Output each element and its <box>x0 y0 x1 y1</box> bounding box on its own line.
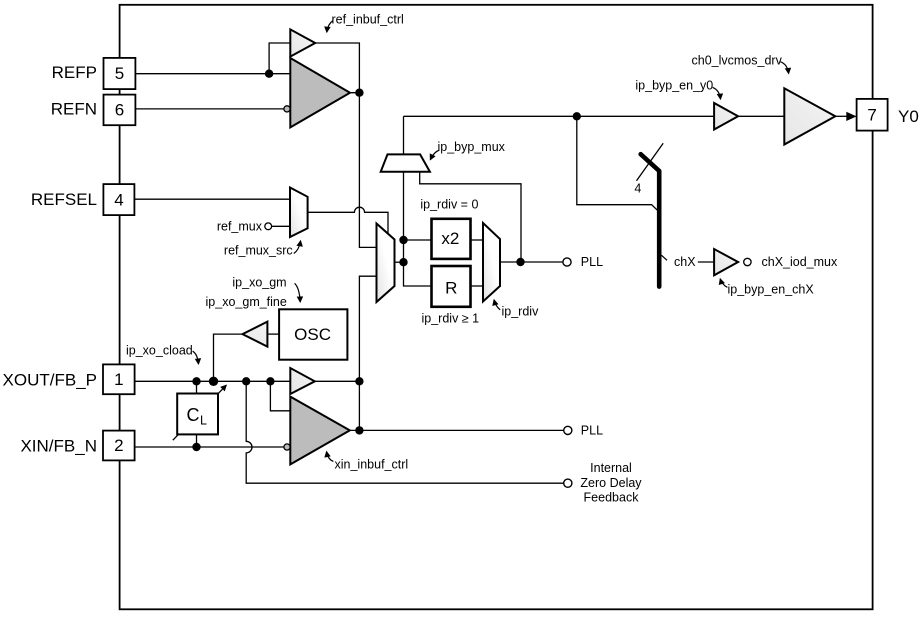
svg-text:x2: x2 <box>441 229 459 248</box>
terminal PLL upper <box>563 258 571 266</box>
wire XOUT pin1 to xin buffers <box>135 380 291 382</box>
buffer small ref_inbuf ctrl triangle <box>290 29 315 56</box>
svg-text:XIN/FB_N: XIN/FB_N <box>20 437 97 456</box>
buffer ip_byp_en_y0 <box>714 103 738 130</box>
wire chX to buffer <box>698 261 714 263</box>
svg-text:R: R <box>445 278 457 297</box>
wire ref buffer output down to input mux in1 <box>350 93 377 248</box>
wire chX tap from bus <box>661 255 667 260</box>
wire divider feed vertical <box>404 172 432 286</box>
wire REFP pin5 to ref buffer <box>135 73 290 75</box>
buffer chX iod <box>714 249 738 275</box>
svg-text:ip_xo_gm_fine: ip_xo_gm_fine <box>206 295 287 309</box>
block OSC <box>279 309 347 359</box>
wire zero delay feedback with hop <box>246 381 564 483</box>
svg-text:ref_mux: ref_mux <box>217 220 263 234</box>
bus thick output bus <box>641 154 660 286</box>
wire xin big buffer input elbow <box>270 381 290 411</box>
svg-text:6: 6 <box>115 101 124 120</box>
svg-text:ip_byp_en_y0: ip_byp_en_y0 <box>635 79 713 93</box>
wire CL top <box>196 381 198 393</box>
svg-text:7: 7 <box>867 106 876 125</box>
wire xin buffer output to PLL <box>350 429 564 431</box>
wire rdiv mux output to PLL <box>500 261 563 263</box>
svg-text:ip_xo_cload: ip_xo_cload <box>126 344 193 358</box>
mux ref_mux (REFSEL select) <box>290 188 308 238</box>
svg-text:ip_byp_mux: ip_byp_mux <box>438 140 506 154</box>
wire small ref buffer output over to ref output net <box>315 43 359 93</box>
wire OSC inverter output elbow <box>214 334 243 381</box>
svg-text:C: C <box>187 405 200 425</box>
svg-text:4: 4 <box>114 190 123 209</box>
wire x2 input <box>404 239 432 241</box>
adjust arrow through CL <box>173 385 227 440</box>
wire REFP tap up to noninverting ctrl buffer <box>269 43 290 74</box>
bubble XIN inverting input <box>284 444 290 450</box>
node junction dots <box>265 70 273 78</box>
buffer xin input big triangle <box>290 397 350 465</box>
svg-text:REFN: REFN <box>51 99 97 118</box>
svg-text:REFP: REFP <box>52 63 97 82</box>
wire y0 buffer to ch0 driver <box>738 115 784 117</box>
buffer ch0_lvcmos_drv <box>784 88 835 144</box>
svg-text:xin_inbuf_ctrl: xin_inbuf_ctrl <box>335 458 409 472</box>
wire OSC to inverter <box>267 333 279 335</box>
buffer OSC inverter (left pointing) <box>243 322 268 347</box>
wire bypass top rail to y0 buffer <box>404 115 715 117</box>
wire XIN pin2 to xin buffer inverting input <box>135 446 285 448</box>
terminal ref_mux control <box>265 223 272 230</box>
svg-text:ref_inbuf_ctrl: ref_inbuf_ctrl <box>332 12 404 26</box>
svg-text:ref_mux_src: ref_mux_src <box>224 243 293 257</box>
chip outline <box>120 5 873 610</box>
wire REFSEL pin4 to ref_mux <box>134 198 290 200</box>
terminal chX_iod_mux <box>744 258 751 265</box>
pin 7 Y0 <box>857 99 888 131</box>
svg-text:5: 5 <box>115 64 124 83</box>
svg-text:4: 4 <box>634 182 641 196</box>
mux ip_byp_mux trapezoid <box>381 154 430 171</box>
svg-text:ip_rdiv: ip_rdiv <box>502 305 540 319</box>
wire x2 to rdiv mux <box>471 239 484 241</box>
buffer ref input big triangle <box>290 58 350 127</box>
terminal PLL lower <box>564 426 572 434</box>
terminal internal zero delay feedback <box>564 479 572 487</box>
svg-text:Feedback: Feedback <box>584 490 640 504</box>
svg-text:PLL: PLL <box>581 255 603 269</box>
svg-text:REFSEL: REFSEL <box>31 190 97 209</box>
wire ref_mux control input <box>272 225 290 227</box>
svg-text:1: 1 <box>114 370 123 389</box>
svg-text:ip_rdiv = 0: ip_rdiv = 0 <box>420 198 478 212</box>
svg-text:ip_byp_en_chX: ip_byp_en_chX <box>728 283 815 297</box>
bubble REFN inverting input <box>284 106 290 112</box>
mux ip_rdiv <box>483 223 500 302</box>
wire ch0 driver to pin7 <box>835 115 849 117</box>
svg-text:chX_iod_mux: chX_iod_mux <box>762 255 838 269</box>
mux input select (xin vs ref) <box>377 224 395 303</box>
wire bypass mux top stem <box>403 116 405 154</box>
wire ref_mux output with hop to input mux select <box>308 207 388 233</box>
wire xin net to input mux in2 <box>359 276 376 430</box>
block CL load capacitor <box>177 394 218 435</box>
svg-text:2: 2 <box>114 436 123 455</box>
buffer small xin ctrl triangle <box>290 368 315 394</box>
wire REFN pin6 to ref buffer inverting input <box>135 108 284 110</box>
svg-text:Y0: Y0 <box>898 107 919 126</box>
bus width slash <box>637 143 664 181</box>
wire R to rdiv mux <box>471 285 484 287</box>
svg-text:Internal: Internal <box>590 461 632 475</box>
svg-text:OSC: OSC <box>294 325 331 344</box>
svg-text:ip_rdiv ≥ 1: ip_rdiv ≥ 1 <box>422 312 480 326</box>
block x2 multiplier <box>432 219 471 259</box>
wire y0 bypass branch down to output bus <box>577 116 659 211</box>
svg-text:L: L <box>200 413 207 427</box>
svg-text:ip_xo_gm: ip_xo_gm <box>232 276 286 290</box>
svg-text:ch0_lvcmos_drv: ch0_lvcmos_drv <box>692 54 783 68</box>
svg-text:chX: chX <box>674 255 696 269</box>
wire bypass mux second input from divider output <box>420 172 521 262</box>
svg-text:PLL: PLL <box>581 424 603 438</box>
arrowhead into pin7 <box>846 112 856 121</box>
wire input mux output <box>395 261 404 263</box>
block R divider <box>432 266 471 307</box>
wire xin small buffer output <box>315 380 360 382</box>
wire CL bottom <box>196 434 198 447</box>
svg-text:XOUT/FB_P: XOUT/FB_P <box>3 371 97 390</box>
svg-text:Zero Delay: Zero Delay <box>580 476 642 490</box>
